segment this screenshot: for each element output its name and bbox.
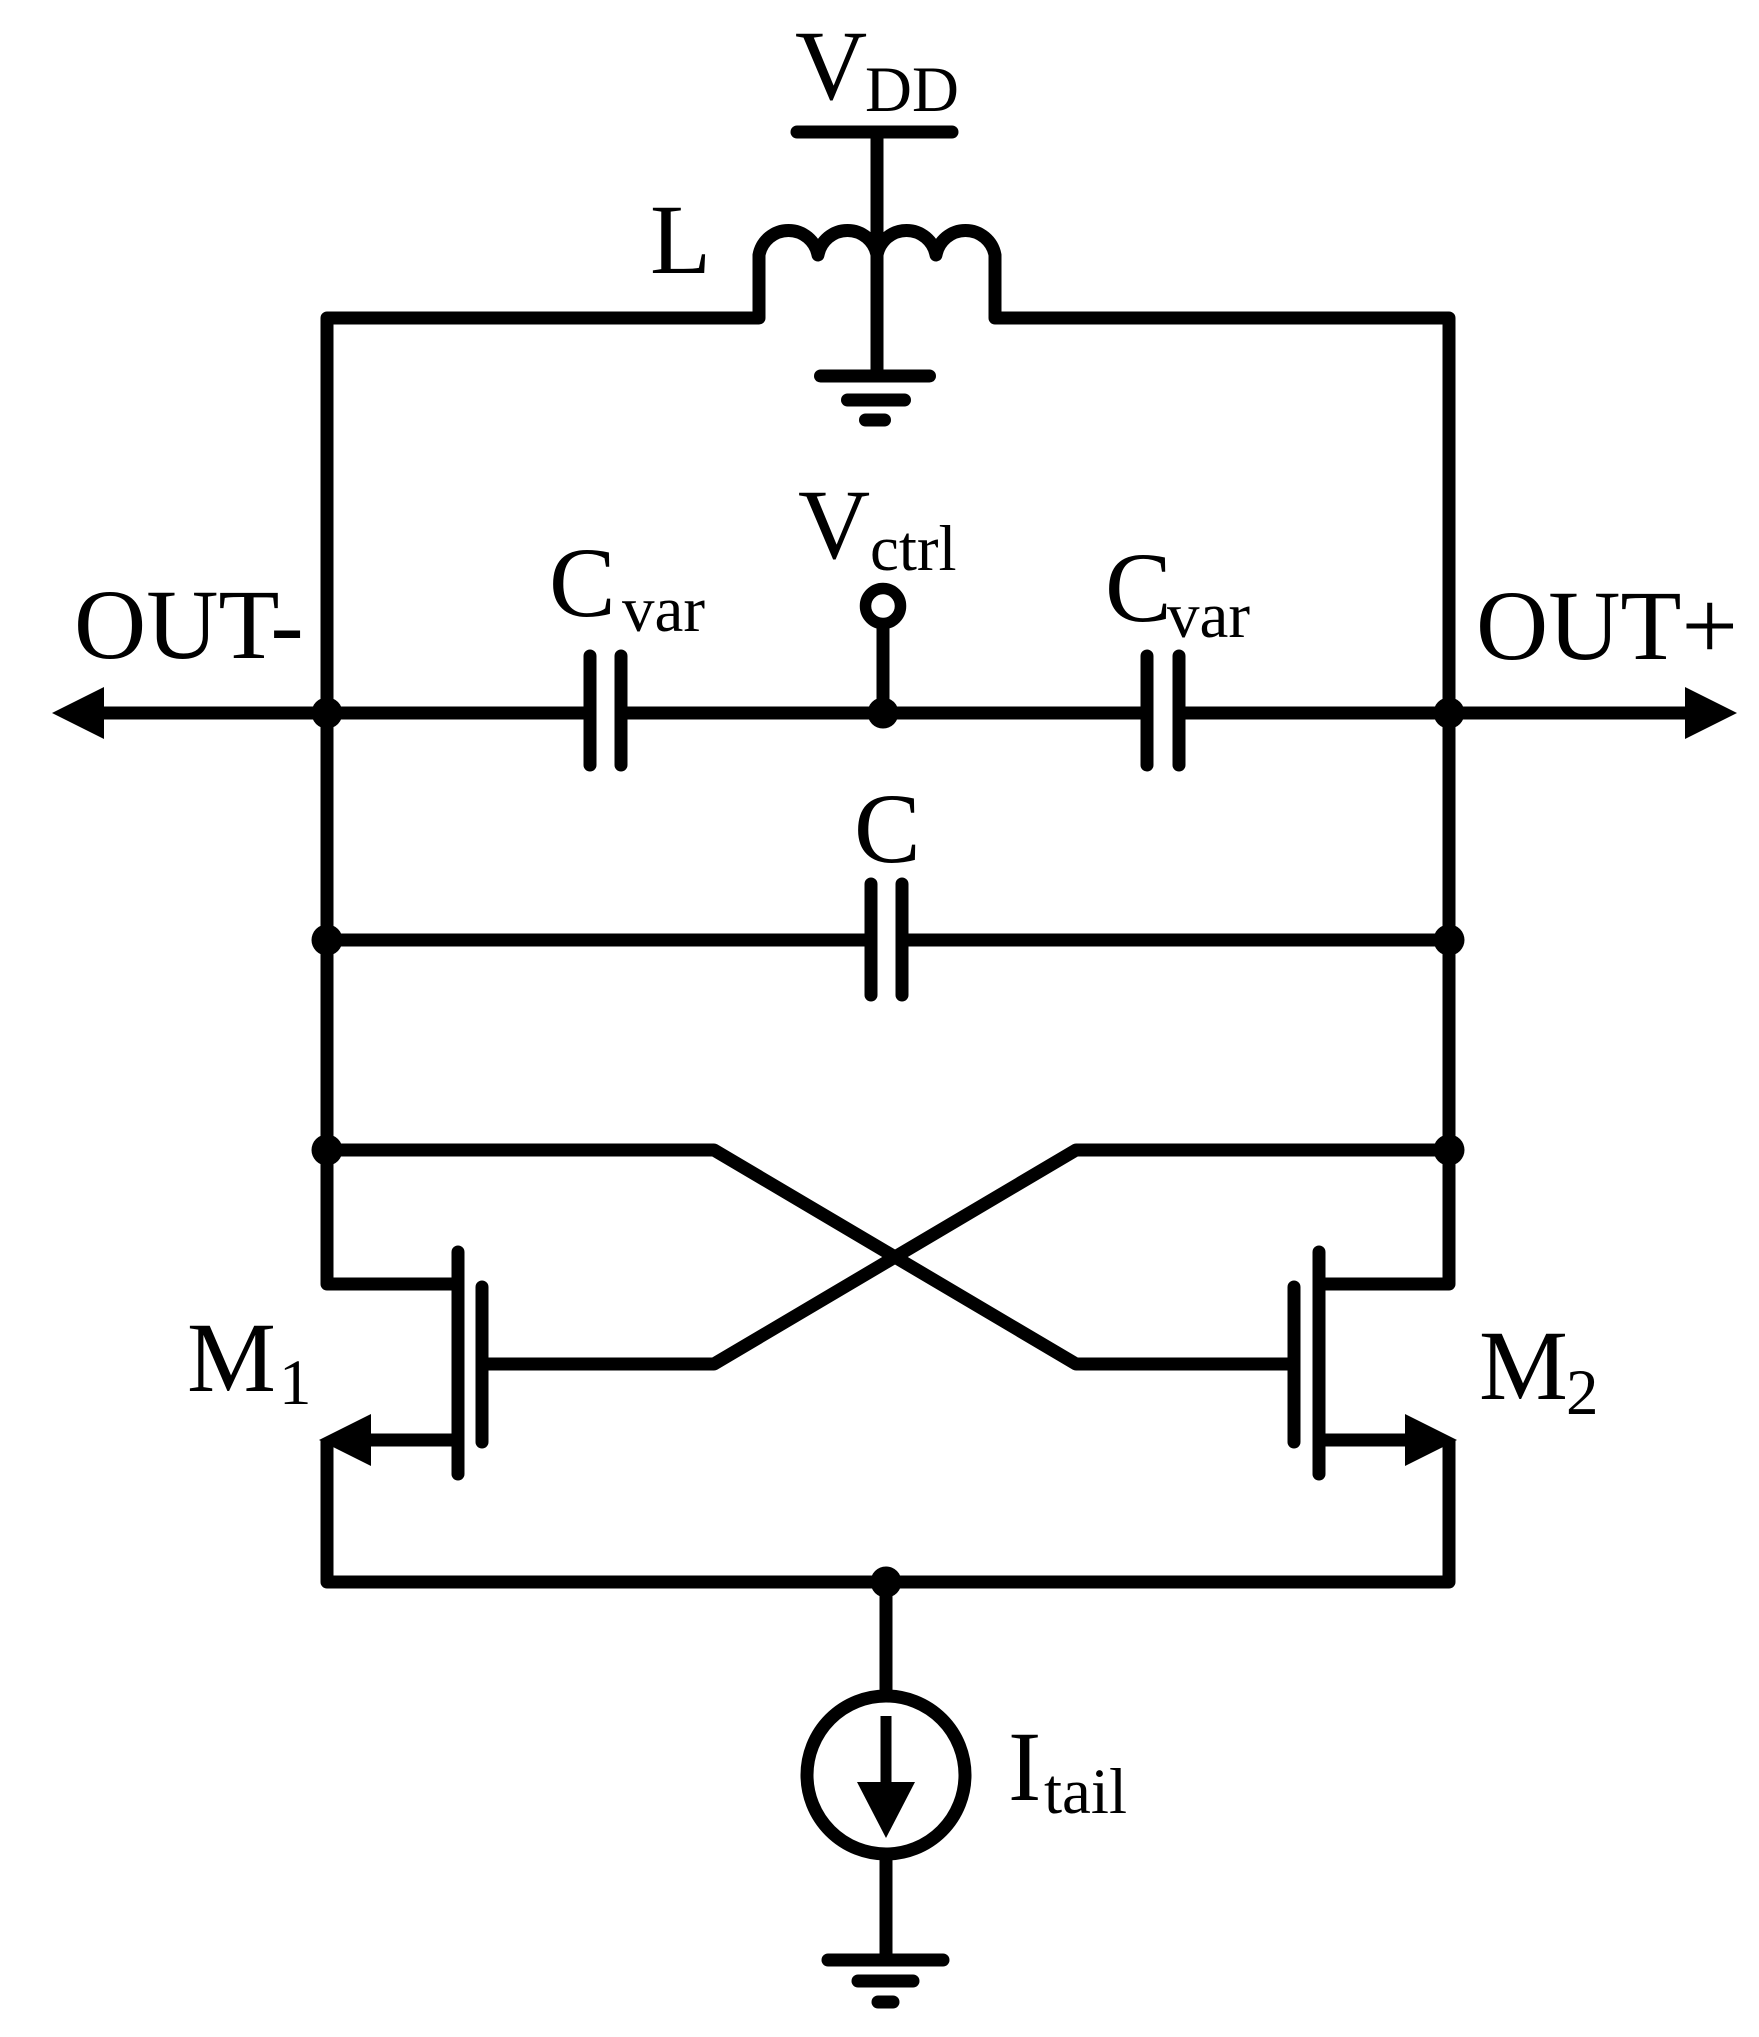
svg-text:C: C: [549, 527, 616, 638]
svg-text:M: M: [187, 1302, 276, 1413]
svg-text:2: 2: [1566, 1357, 1599, 1429]
svg-text:C: C: [1105, 532, 1172, 643]
svg-text:M: M: [1479, 1310, 1568, 1421]
svg-text:C: C: [854, 773, 921, 884]
svg-text:L: L: [650, 184, 711, 295]
svg-text:V: V: [798, 469, 870, 580]
svg-text:OUT+: OUT+: [1476, 570, 1738, 681]
svg-text:1: 1: [279, 1347, 312, 1419]
svg-text:I: I: [1008, 1711, 1041, 1822]
svg-text:var: var: [622, 574, 705, 646]
svg-text:DD: DD: [865, 54, 959, 126]
svg-text:ctrl: ctrl: [870, 513, 957, 585]
svg-text:OUT-: OUT-: [74, 569, 304, 680]
svg-text:V: V: [795, 10, 867, 121]
svg-text:var: var: [1167, 580, 1250, 652]
svg-text:tail: tail: [1044, 1756, 1127, 1828]
